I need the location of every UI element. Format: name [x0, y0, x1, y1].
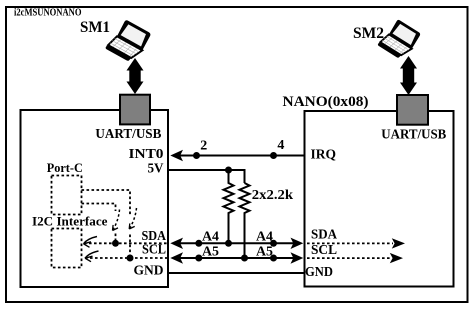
wire INT0-IRQ — [176, 155, 305, 157]
arrowhead into INT0 — [170, 150, 183, 161]
svg-text:I2C Interface: I2C Interface — [32, 214, 108, 229]
curved arrow onto SDA node — [113, 210, 120, 231]
svg-text:A4: A4 — [202, 230, 219, 245]
svg-text:2: 2 — [200, 138, 207, 153]
svg-text:SM1: SM1 — [80, 19, 110, 36]
svg-text:2x2.2k: 2x2.2k — [252, 188, 294, 203]
svg-text:i2cMSUNONANO: i2cMSUNONANO — [14, 7, 82, 19]
svg-text:GND: GND — [134, 263, 164, 278]
node pin2 — [193, 152, 200, 159]
arrowhead SDA out — [392, 238, 405, 248]
arrowhead into SCL UNO — [170, 252, 183, 263]
node 5V-R1 — [225, 167, 232, 174]
link arrow SM2 to UART/USB — [400, 56, 417, 95]
curved arrow into I2C block (SDA) — [84, 237, 98, 244]
svg-text:A5: A5 — [202, 245, 219, 260]
svg-text:Port-C: Port-C — [47, 160, 83, 175]
dashed wire SDA out NANO — [307, 242, 393, 244]
node SCL-R2 — [241, 255, 248, 262]
arrowhead into SDA UNO — [170, 238, 183, 249]
svg-text:SCL: SCL — [311, 243, 337, 258]
svg-text:SDA: SDA — [311, 228, 338, 243]
node SCL-A5 NANO — [270, 255, 277, 262]
link arrow SM1 to UART/USB — [127, 58, 144, 94]
laptop icon SM2 — [377, 17, 421, 61]
dashed wire Port-C to SCL column — [82, 190, 131, 215]
node SCL dashed junction — [127, 255, 134, 262]
wire GND — [168, 272, 305, 274]
curved arrow onto SCL node — [129, 208, 136, 229]
node pin4 — [270, 152, 277, 159]
svg-text:NANO(0x08): NANO(0x08) — [283, 94, 369, 110]
wire SCL — [176, 257, 296, 259]
node SDA-A4 UNO — [195, 240, 202, 247]
arrowhead SCL out — [390, 253, 403, 263]
svg-text:UART/USB: UART/USB — [381, 128, 446, 143]
resistor R2 — [240, 183, 250, 258]
board NANO box — [305, 111, 454, 287]
svg-text:4: 4 — [277, 138, 284, 153]
dashed wire SCL inside UNO — [85, 257, 168, 259]
node SCL-A5 UNO — [195, 255, 202, 262]
svg-text:INT0: INT0 — [129, 147, 164, 162]
svg-text:SM2: SM2 — [353, 25, 384, 42]
laptop icon SM1 — [105, 18, 151, 65]
dashed wire SCL out NANO — [307, 257, 391, 259]
Port-C block — [52, 176, 82, 215]
UART/USB connector square SM1 — [120, 95, 150, 125]
I2C Interface block — [52, 229, 82, 268]
svg-text:IRQ: IRQ — [311, 147, 337, 162]
arrowhead into SCL NANO — [291, 252, 304, 263]
node SDA-A4 NANO — [270, 240, 277, 247]
dashed wire Port-C to SDA column — [82, 204, 116, 212]
svg-text:SCL: SCL — [142, 242, 166, 257]
arrowhead into SDA NANO — [291, 238, 304, 249]
UART/USB connector square SM2 — [397, 95, 428, 125]
svg-text:GND: GND — [305, 265, 333, 280]
svg-text:A4: A4 — [256, 230, 273, 245]
node SDA dashed junction — [112, 240, 119, 247]
curved arrow into I2C block (SCL) — [85, 251, 99, 258]
wire 5V rail — [168, 170, 245, 183]
svg-text:A5: A5 — [256, 245, 273, 260]
dashed wire SDA inside UNO — [84, 242, 168, 244]
board UNO box — [21, 110, 169, 287]
node SDA-R1 — [225, 240, 232, 247]
resistor R1 — [224, 170, 234, 243]
svg-text:5V: 5V — [148, 162, 164, 177]
svg-text:UART/USB: UART/USB — [95, 127, 161, 142]
wire SDA — [176, 242, 296, 244]
